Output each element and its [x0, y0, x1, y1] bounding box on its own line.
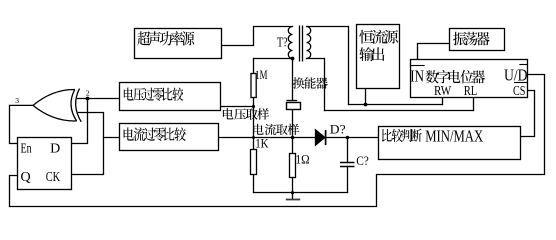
wire: current sampling main line: [219, 137, 316, 139]
resistor 1-ohm body: [290, 154, 296, 178]
block: oscillator box: [450, 29, 505, 51]
text 恒流源: [359, 30, 398, 44]
text 电流取样: [253, 124, 299, 135]
svg-text:2: 2: [86, 89, 90, 98]
wire: 1-ohm resistor to ground bar: [292, 178, 294, 193]
text 电压过零比较: [124, 88, 183, 101]
svg-text:1K: 1K: [255, 137, 268, 151]
text 振荡器: [453, 32, 490, 46]
overline D of U/D: [519, 64, 527, 66]
node: junction dot transformer primary bottom: [291, 57, 295, 61]
wire: RL bus horizontal: [325, 110, 474, 112]
text 比较判断: [382, 129, 422, 142]
text 数字电位器: [426, 70, 485, 83]
wire: power source output to transformer primary top: [222, 27, 293, 46]
svg-text:RL: RL: [464, 84, 478, 99]
transformer T? core: [299, 26, 301, 62]
wire: diode cathode to MIN/MAX box: [326, 137, 379, 139]
ground symbol: [292, 193, 294, 200]
wire: oscillator to potentiometer: [418, 44, 450, 60]
transformer T? primary winding: [288, 27, 292, 59]
block: constant current source output box: [357, 25, 400, 89]
wire: 1M voltage divider column: [253, 59, 255, 74]
svg-text:Q: Q: [21, 170, 31, 185]
svg-text:C?: C?: [356, 153, 369, 168]
text 超声功率源: [137, 31, 194, 45]
svg-text:U/D: U/D: [504, 66, 528, 85]
node: junction dot voltage tap at 1M/1K: [252, 105, 255, 108]
node: junction dot transducer/1-ohm on main line: [291, 136, 295, 140]
node: junction dot capacitor branch: [346, 136, 350, 140]
wire: MIN/MAX output to CS pin: [521, 91, 535, 137]
wire: secondary top to RW bus: [307, 27, 349, 105]
wire: RL pin: [473, 98, 475, 111]
overline IN: [410, 65, 425, 67]
wire: XOR bottom input / CK net: [72, 113, 104, 175]
svg-text:1Ω: 1Ω: [295, 152, 309, 166]
resistor 1M body: [251, 74, 256, 98]
wire: bottom bar joining 1K, 1-ohm, C: [254, 192, 348, 194]
wire: current comparator output tap: [104, 137, 120, 139]
block: voltage zero-crossing comparator box: [120, 83, 221, 111]
wire: secondary bottom to RL bus: [307, 59, 325, 111]
diode D?: [316, 130, 325, 145]
text 换能器: [293, 77, 328, 89]
wire: transformer primary bottom to 1M column: [254, 58, 293, 60]
text 输出: [359, 47, 384, 61]
wire: pin-2 node down to flip-flop D: [72, 99, 88, 144]
wire: XOR top input from voltage comparator: [78, 98, 120, 100]
svg-text:En: En: [21, 141, 32, 156]
transducer top plate tick: [287, 100, 297, 102]
block: digital potentiometer U1 box: [411, 60, 528, 98]
svg-text:T?: T?: [277, 35, 288, 50]
text 电压取样: [223, 108, 269, 120]
overline CS: [514, 82, 527, 84]
svg-text:CS: CS: [513, 84, 525, 99]
wire: Q output feedback bus to U/D pin: [10, 75, 545, 207]
wire: RW bus horizontal: [349, 104, 443, 106]
wire: XOR output to flip-flop En: [10, 105, 34, 143]
wire: transformer center column to transducer: [292, 59, 294, 101]
svg-text:1M: 1M: [255, 68, 267, 82]
node: junction dot constant current source on RW bus: [364, 103, 368, 107]
capacitor C? plates: [340, 162, 355, 164]
wire: transducer to 1-ohm resistor: [292, 110, 294, 154]
text 电流过零比较: [124, 127, 186, 141]
svg-text:IN: IN: [410, 67, 424, 86]
wire: capacitor branch: [347, 138, 349, 163]
block: D flip-flop box: [18, 138, 72, 190]
node: junction dot pin 2 net: [86, 97, 90, 101]
svg-text:CK: CK: [46, 170, 60, 185]
node: junction dot 1K column on main line: [252, 136, 255, 139]
block: compare-judge MIN/MAX box: [379, 127, 521, 160]
XOR gate extra input arc: [76, 89, 82, 122]
wire: RW pin: [442, 98, 444, 105]
svg-text:D: D: [50, 141, 60, 156]
block: current zero-crossing comparator box: [120, 124, 219, 151]
svg-text:3: 3: [15, 96, 19, 105]
transformer T? secondary winding: [307, 27, 311, 59]
wire: voltage sampling tap: [221, 106, 254, 108]
resistor 1K body: [251, 150, 257, 175]
wire: constant current source output pin: [365, 89, 367, 105]
block: ultrasonic power source box: [135, 29, 222, 59]
svg-text:MIN/MAX: MIN/MAX: [425, 127, 483, 146]
svg-text:D?: D?: [330, 122, 346, 137]
svg-text:RW: RW: [434, 84, 452, 99]
XOR gate body (points left): [33, 89, 77, 121]
transducer element: [287, 103, 301, 110]
